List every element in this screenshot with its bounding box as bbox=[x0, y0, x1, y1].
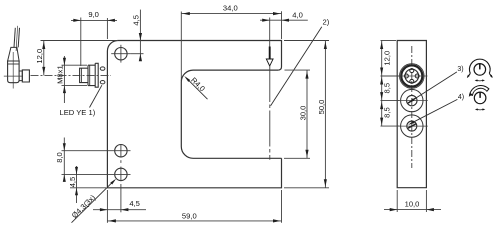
cable of mating connector bbox=[14, 28, 15, 48]
ext bottom edge left bbox=[70, 187, 106, 189]
ext body left edge up bbox=[106, 18, 108, 39]
ext slot top edge right bbox=[285, 69, 311, 71]
screw slot pot 3 bbox=[408, 98, 416, 103]
dimension chain 12,0 8,5 8,5 bbox=[381, 40, 397, 42]
label 2) leader bbox=[271, 27, 322, 106]
svg-text:50,0: 50,0 bbox=[317, 100, 326, 115]
M8 connector flange bbox=[95, 63, 98, 87]
LED YE window bottom (ellipse) bbox=[100, 81, 105, 84]
ext top edge right bbox=[284, 40, 329, 42]
svg-text:8,5: 8,5 bbox=[382, 83, 391, 94]
mating connector exit step bbox=[19, 71, 22, 81]
mounting hole bottom-2 (Ø4.3) bbox=[115, 168, 127, 180]
svg-text:4,0: 4,0 bbox=[292, 11, 303, 20]
svg-text:4,5: 4,5 bbox=[68, 177, 77, 188]
mating connector centerline bbox=[12, 52, 14, 89]
dimension 4,5 left bbox=[76, 166, 78, 203]
M8 connector front view bbox=[400, 64, 425, 89]
svg-text:59,0: 59,0 bbox=[182, 212, 197, 221]
svg-text:4): 4) bbox=[458, 94, 464, 101]
ext line body right edge up bbox=[281, 11, 283, 39]
svg-text:8,5: 8,5 bbox=[382, 107, 391, 118]
svg-text:30,0: 30,0 bbox=[298, 106, 307, 121]
ext to 4,5 dim bbox=[131, 53, 144, 55]
icon 3 small double arrow bbox=[476, 79, 484, 82]
svg-text:4,5: 4,5 bbox=[132, 15, 141, 26]
label 3) leader bbox=[411, 72, 457, 102]
label LED YE 1) leader bbox=[90, 85, 102, 107]
dimension 4,5 bottom bbox=[93, 209, 146, 211]
ext slot bottom edge right bbox=[284, 157, 310, 159]
mounting hole bottom-1 (Ø4.3) bbox=[115, 145, 127, 157]
ext hole center down to 4,5 dim bbox=[120, 184, 122, 212]
ext connector tip bbox=[80, 18, 82, 67]
ext bottom edge right bbox=[284, 187, 329, 189]
screw slot pot 4 bbox=[408, 124, 416, 128]
centerline through bottom holes bbox=[120, 144, 122, 158]
mating connector nut (square) bbox=[22, 70, 29, 82]
LED window top (ellipse) bbox=[100, 67, 105, 70]
connector axis centerline bbox=[31, 74, 112, 76]
svg-text:34,0: 34,0 bbox=[223, 3, 238, 12]
potentiometer 3 front view bbox=[401, 89, 423, 111]
label R4,0 with leader arrow bbox=[186, 78, 208, 100]
dimension 4,5 top bbox=[139, 10, 141, 61]
svg-text:M8x1: M8x1 bbox=[55, 65, 64, 84]
icon 4 small double arrow bbox=[476, 108, 484, 111]
fork sensor body outline (side view) bbox=[118, 41, 282, 71]
mounting hole top-left (Ø4.3) bbox=[115, 48, 127, 60]
icon potentiometer single direction (4) bbox=[474, 92, 486, 104]
dimension 10,0 bbox=[396, 190, 398, 212]
ext right edge down bbox=[281, 190, 283, 223]
dimension M8x1 bbox=[62, 64, 88, 66]
svg-text:12,0: 12,0 bbox=[382, 51, 391, 66]
front view housing rectangle bbox=[397, 41, 426, 188]
icon potentiometer bidirectional (3) bbox=[474, 64, 486, 76]
ext left edge down bbox=[106, 190, 108, 223]
ext line slot left end bbox=[180, 12, 182, 82]
mating connector body bbox=[8, 61, 20, 83]
M8 connector tip cylinder bbox=[80, 68, 88, 82]
beam axis centerline (node 2 reference) bbox=[269, 66, 271, 160]
svg-text:10,0: 10,0 bbox=[405, 199, 420, 208]
ext line hole2 center bbox=[62, 173, 131, 175]
svg-text:2): 2) bbox=[323, 17, 330, 26]
label Ø4,3(3x) leader with arrow bbox=[72, 181, 114, 223]
mating connector crosshair bbox=[4, 75, 23, 77]
M8 threaded barrel bbox=[88, 65, 95, 85]
svg-text:8,0: 8,0 bbox=[55, 152, 64, 163]
svg-text:12,0: 12,0 bbox=[35, 49, 44, 64]
svg-text:9,0: 9,0 bbox=[88, 10, 99, 19]
dimension 8,0 bbox=[63, 138, 65, 182]
hole crosshair vertical bbox=[120, 45, 122, 63]
beam direction arrow (hollow) bbox=[269, 47, 271, 60]
potentiometer 4 front view bbox=[401, 115, 423, 137]
svg-text:3): 3) bbox=[457, 66, 463, 73]
ext top edge left bbox=[41, 40, 118, 42]
ext line beam axis up bbox=[269, 18, 271, 47]
hole crosshair horizontal bbox=[111, 53, 130, 55]
ext line hole1 center bbox=[62, 150, 131, 152]
fork slot contour R4 corners bbox=[181, 70, 281, 158]
label 4) leader bbox=[410, 99, 457, 123]
svg-text:4,5: 4,5 bbox=[129, 199, 140, 208]
connector crosshair bbox=[397, 75, 428, 77]
mating connector strain relief taper bbox=[8, 47, 20, 61]
front view vertical centerline bbox=[411, 46, 413, 168]
svg-text:LED YE 1): LED YE 1) bbox=[60, 108, 96, 117]
